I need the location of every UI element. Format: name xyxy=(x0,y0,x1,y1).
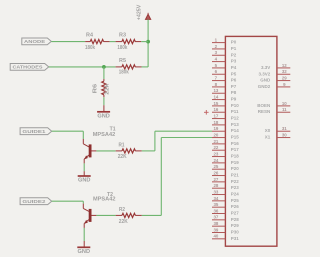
pin 30 X1 xyxy=(277,137,290,139)
svg-text:16: 16 xyxy=(213,107,218,112)
svg-text:P15: P15 xyxy=(231,135,240,140)
pin 36 P27 xyxy=(212,213,225,215)
svg-text:P12: P12 xyxy=(231,116,240,121)
svg-text:P26: P26 xyxy=(231,204,240,209)
pin 31 X0 xyxy=(277,130,290,132)
svg-text:180k: 180k xyxy=(119,70,129,76)
svg-text:P0: P0 xyxy=(231,40,237,45)
svg-text:P31: P31 xyxy=(231,236,240,241)
svg-text:26: 26 xyxy=(213,170,218,175)
svg-text:GND: GND xyxy=(78,178,91,184)
svg-text:P6: P6 xyxy=(231,78,237,83)
wire R6 to GND xyxy=(103,97,105,105)
wire ANODE to R4 xyxy=(51,41,85,43)
wire R2 to IC pin 20 xyxy=(142,214,162,216)
part origin cross U1 xyxy=(204,111,209,113)
wire R1 to IC pin 19 xyxy=(142,150,155,152)
net flag GUIDE1 xyxy=(20,128,52,135)
wire R4 to R3 xyxy=(110,41,116,43)
svg-text:P22: P22 xyxy=(231,179,240,184)
wire R3 to rail junction xyxy=(141,41,148,43)
wire T1 base to R1 xyxy=(96,150,115,152)
net flag CATHODES xyxy=(10,64,49,71)
svg-text:ANODE: ANODE xyxy=(24,39,46,45)
transistor T2 MPSA42 xyxy=(82,204,84,209)
svg-text:GND: GND xyxy=(97,113,110,119)
resistor R3 xyxy=(116,41,122,43)
pin 13 P8 xyxy=(212,92,225,94)
svg-text:RESN: RESN xyxy=(258,109,271,114)
svg-text:T1: T1 xyxy=(110,126,116,132)
svg-text:P30: P30 xyxy=(231,230,240,235)
svg-text:20: 20 xyxy=(213,132,218,137)
svg-text:R5: R5 xyxy=(119,58,126,64)
pin 17 P12 xyxy=(212,118,225,120)
svg-text:180k: 180k xyxy=(85,45,95,51)
pin 4 P3 xyxy=(212,61,225,63)
svg-text:BOEN: BOEN xyxy=(257,103,270,108)
svg-text:R6: R6 xyxy=(93,84,99,94)
pin 16 P11 xyxy=(212,111,225,113)
pin 38 P29 xyxy=(212,225,225,227)
svg-text:X1: X1 xyxy=(265,135,271,140)
svg-text:27: 27 xyxy=(213,177,218,182)
pin 12 3.3V xyxy=(277,67,290,69)
svg-text:22K: 22K xyxy=(118,154,127,160)
svg-text:P5: P5 xyxy=(231,71,237,76)
svg-text:GUIDE1: GUIDE1 xyxy=(22,129,45,135)
pin 14 P9 xyxy=(212,99,225,101)
svg-text:P21: P21 xyxy=(231,173,240,178)
wire +425V rail vertical xyxy=(147,19,149,67)
svg-text:P23: P23 xyxy=(231,185,240,190)
pin 20 P15 xyxy=(212,137,225,139)
svg-text:P10: P10 xyxy=(231,103,240,108)
svg-text:3.3V: 3.3V xyxy=(261,65,270,70)
pin 33 P24 xyxy=(212,194,225,196)
wire T2 emitter to GND xyxy=(83,228,85,241)
transistor T1 MPSA42 xyxy=(82,139,84,144)
ground GND (R6) xyxy=(97,111,110,113)
svg-text:15: 15 xyxy=(213,101,218,106)
svg-text:P1: P1 xyxy=(231,46,237,51)
wire T1 emitter to GND xyxy=(83,163,85,171)
node junction CATHODES-R6 xyxy=(102,65,106,69)
svg-text:12: 12 xyxy=(282,63,287,68)
pin 26 P21 xyxy=(212,175,225,177)
pin 29 GND xyxy=(277,80,290,82)
svg-text:14: 14 xyxy=(213,94,218,99)
pin 28 P23 xyxy=(212,187,225,189)
resistor R6 xyxy=(103,79,105,81)
ground GND (T1) xyxy=(78,175,91,177)
pin 27 P22 xyxy=(212,181,225,183)
svg-text:39: 39 xyxy=(213,227,218,232)
pin 23 P18 xyxy=(212,156,225,158)
pin 37 P28 xyxy=(212,219,225,221)
svg-text:40: 40 xyxy=(213,234,218,239)
pin 2 P1 xyxy=(212,48,225,50)
svg-text:30: 30 xyxy=(282,132,287,137)
svg-text:23: 23 xyxy=(213,151,218,156)
svg-text:24: 24 xyxy=(213,158,218,163)
svg-text:P16: P16 xyxy=(231,141,240,146)
svg-text:10: 10 xyxy=(282,101,287,106)
pin 21 P16 xyxy=(212,143,225,145)
wire R5 to rail xyxy=(142,66,149,68)
resistor R1 xyxy=(116,150,122,152)
svg-text:CATHODES: CATHODES xyxy=(12,65,43,71)
svg-text:GND: GND xyxy=(260,78,271,83)
svg-text:P19: P19 xyxy=(231,160,240,165)
svg-text:R3: R3 xyxy=(119,33,126,39)
pin 5 P4 xyxy=(212,67,225,69)
pin 35 P26 xyxy=(212,206,225,208)
pin 11 RESN xyxy=(277,111,290,113)
svg-text:MPSA42: MPSA42 xyxy=(93,132,116,138)
svg-text:180k: 180k xyxy=(117,45,127,51)
svg-text:P2: P2 xyxy=(231,52,237,57)
svg-text:P11: P11 xyxy=(231,109,239,114)
svg-text:38: 38 xyxy=(213,221,218,226)
svg-text:31: 31 xyxy=(282,126,287,131)
resistor R4 xyxy=(85,41,90,43)
pin 19 P14 xyxy=(212,130,225,132)
svg-text:R2: R2 xyxy=(119,207,125,213)
node junction ANODE-R3 rail xyxy=(146,40,150,44)
svg-text:P18: P18 xyxy=(231,154,240,159)
net flag ANODE xyxy=(22,38,52,45)
pin 24 P19 xyxy=(212,162,225,164)
svg-text:GND2: GND2 xyxy=(258,84,271,89)
svg-text:13: 13 xyxy=(213,88,218,93)
pin 34 P25 xyxy=(212,200,225,202)
svg-text:19: 19 xyxy=(213,126,218,131)
svg-text:32: 32 xyxy=(282,69,287,74)
wire T2 base to R2 xyxy=(96,214,115,216)
net flag GUIDE2 xyxy=(20,198,52,205)
pin 15 P10 xyxy=(212,105,225,107)
wire CATHODES to R5 xyxy=(49,66,116,68)
svg-text:P8: P8 xyxy=(231,90,237,95)
IC U1 body xyxy=(225,36,277,246)
pin 1 P0 xyxy=(212,42,225,44)
resistor R2 xyxy=(116,214,122,216)
wire GUIDE2 to T2 collector xyxy=(52,200,84,202)
svg-text:GND: GND xyxy=(78,249,91,255)
svg-text:37: 37 xyxy=(213,215,218,220)
svg-text:21: 21 xyxy=(213,139,218,144)
svg-text:17: 17 xyxy=(213,113,218,118)
gnd stub T1 xyxy=(83,171,85,175)
svg-text:P27: P27 xyxy=(231,211,240,216)
svg-text:P3: P3 xyxy=(231,59,237,64)
ground GND (T2) xyxy=(77,246,90,248)
pin 7 P6 xyxy=(212,80,225,82)
svg-text:33: 33 xyxy=(213,189,218,194)
pin 3 P2 xyxy=(212,54,225,56)
gnd stub R6 xyxy=(103,105,105,111)
svg-text:P9: P9 xyxy=(231,97,237,102)
svg-text:11: 11 xyxy=(282,107,287,112)
wire junction to R6 xyxy=(103,67,105,79)
svg-text:R1: R1 xyxy=(119,142,125,148)
svg-text:22K: 22K xyxy=(119,219,128,225)
supply +425V symbol xyxy=(146,14,151,19)
svg-text:P29: P29 xyxy=(231,223,240,228)
pin 10 BOEN xyxy=(277,105,290,107)
svg-text:GUIDE2: GUIDE2 xyxy=(22,199,45,205)
svg-text:35: 35 xyxy=(213,202,218,207)
svg-text:X0: X0 xyxy=(265,128,271,133)
svg-text:18: 18 xyxy=(213,120,218,125)
svg-text:22k: 22k xyxy=(105,83,111,94)
pin 6 P5 xyxy=(212,73,225,75)
svg-text:34: 34 xyxy=(213,196,218,201)
svg-text:MPSA42: MPSA42 xyxy=(93,196,116,202)
svg-text:P7: P7 xyxy=(231,84,237,89)
svg-text:P14: P14 xyxy=(231,128,240,133)
svg-text:P4: P4 xyxy=(231,65,237,70)
pin 39 P30 xyxy=(212,232,225,234)
svg-text:29: 29 xyxy=(282,75,287,80)
wire GUIDE1 to T1 collector xyxy=(52,130,84,132)
svg-text:P25: P25 xyxy=(231,198,240,203)
svg-text:36: 36 xyxy=(213,208,218,213)
svg-text:P24: P24 xyxy=(231,192,240,197)
svg-text:P17: P17 xyxy=(231,147,240,152)
svg-text:+425V: +425V xyxy=(137,4,143,20)
pin 32 3.3V2 xyxy=(277,73,290,75)
svg-text:P20: P20 xyxy=(231,166,240,171)
svg-text:28: 28 xyxy=(213,183,218,188)
pin 22 P17 xyxy=(212,149,225,151)
svg-text:25: 25 xyxy=(213,164,218,169)
pin 25 P20 xyxy=(212,168,225,170)
svg-text:22: 22 xyxy=(213,145,218,150)
svg-text:R4: R4 xyxy=(86,33,93,39)
svg-text:P28: P28 xyxy=(231,217,240,222)
pin 8 P7 xyxy=(212,86,225,88)
svg-text:P13: P13 xyxy=(231,122,240,127)
pin 40 P31 xyxy=(212,238,225,240)
gnd stub T2 xyxy=(83,241,85,247)
resistor R5 xyxy=(116,66,122,68)
svg-text:3.3V2: 3.3V2 xyxy=(259,71,271,76)
pin 9 GND2 xyxy=(277,86,290,88)
pin 18 P13 xyxy=(212,124,225,126)
